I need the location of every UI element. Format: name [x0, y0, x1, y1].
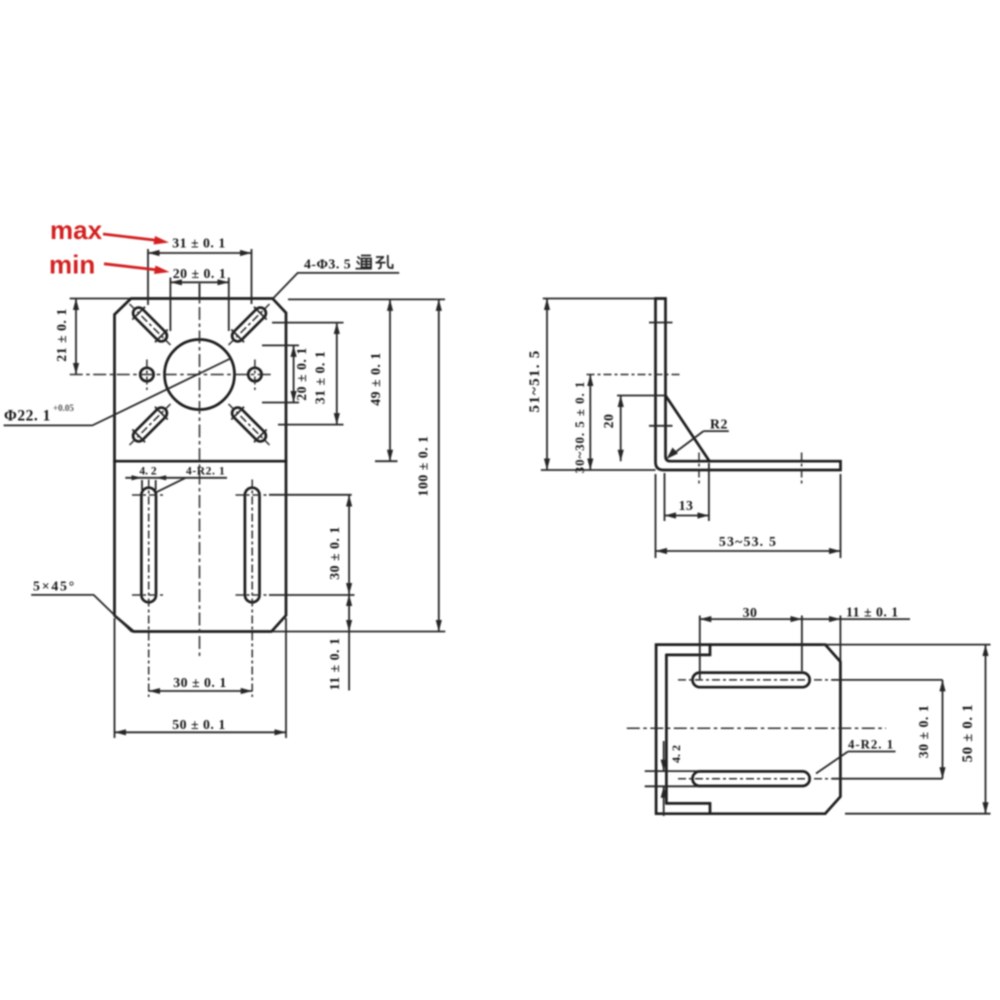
leg tick 2 [801, 453, 803, 485]
slot mark upper [649, 322, 673, 324]
dim 100 top ext [288, 298, 445, 300]
dim 30 ext right [801, 616, 803, 672]
svg-text:30~30. 5 ± 0. 1: 30~30. 5 ± 0. 1 [573, 381, 587, 474]
dim 20 line [620, 396, 622, 462]
dim 31 top line [148, 252, 252, 254]
slot upper centerline [678, 679, 832, 681]
lower slot right [245, 488, 260, 603]
dim 11 ext [839, 616, 841, 662]
dim 53 ext left [655, 474, 657, 558]
dim 21 line [75, 299, 77, 375]
leg tick 1 [698, 453, 700, 485]
dim 20 ext [617, 395, 666, 397]
slot upper-right [222, 298, 276, 352]
dim 30 ext left [699, 616, 701, 680]
label 5x45 leader [31, 595, 132, 632]
svg-text:20: 20 [601, 414, 616, 429]
side hole tick right [254, 360, 256, 391]
svg-text:31 ± 0. 1: 31 ± 0. 1 [172, 236, 225, 251]
dim 30 right line [942, 680, 944, 779]
right ext slot-inner top [262, 344, 299, 346]
main centerline [627, 727, 886, 729]
dim 50 line [985, 645, 987, 814]
svg-text:20 ± 0. 1: 20 ± 0. 1 [173, 266, 226, 281]
svg-text:4. 2: 4. 2 [669, 745, 683, 763]
center extension [199, 284, 201, 299]
right ext slot-inner bottom [262, 402, 299, 404]
slot bottom marks [132, 594, 166, 596]
dim 50 left ext [114, 618, 116, 738]
svg-text:Φ22. 1: Φ22. 1 [4, 408, 51, 425]
svg-text:30 ± 0. 1: 30 ± 0. 1 [916, 705, 931, 758]
svg-text:100 ± 0. 1: 100 ± 0. 1 [416, 436, 431, 497]
svg-text:30 ± 0. 1: 30 ± 0. 1 [327, 526, 342, 579]
svg-text:20 ± 0. 1: 20 ± 0. 1 [294, 347, 309, 400]
svg-text:11 ± 0. 1: 11 ± 0. 1 [327, 638, 342, 691]
dim 11 line [348, 595, 350, 632]
side hole left [140, 368, 153, 381]
dim 11 tail [348, 632, 350, 691]
dim 53 ext right [840, 474, 842, 558]
svg-text:30: 30 [743, 605, 758, 620]
dim 31 right line [336, 323, 338, 425]
right lower ext 595 solid [269, 594, 355, 596]
dim 30 line [700, 618, 802, 620]
svg-text:31 ± 0. 1: 31 ± 0. 1 [313, 351, 328, 404]
slot lower ext [832, 778, 943, 780]
right ext slot-outer bottom [278, 424, 344, 426]
svg-text:49 ± 0. 1: 49 ± 0. 1 [368, 352, 383, 405]
svg-text:4-R2. 1: 4-R2. 1 [848, 738, 894, 752]
svg-text:max: max [50, 215, 103, 245]
bend line [115, 460, 287, 463]
dim 13 line [665, 515, 709, 517]
svg-text:50 ± 0. 1: 50 ± 0. 1 [960, 704, 976, 763]
svg-text:50 ± 0. 1: 50 ± 0. 1 [172, 717, 225, 732]
gusset rib [666, 396, 710, 462]
slot mark lower [649, 425, 673, 427]
dim 50 ext bottom [845, 813, 991, 815]
hanzi kong [376, 255, 393, 268]
plate outline [656, 645, 840, 814]
dim 30.5 line [589, 375, 591, 471]
dim 53 line [656, 550, 841, 552]
L-profile outline [656, 299, 841, 471]
label R2 leader [671, 431, 704, 455]
dim 20 right line [293, 345, 295, 402]
lower slot left [141, 488, 156, 603]
red arrow min [104, 264, 158, 270]
dim 31 top: extension lines [147, 249, 149, 305]
label phi22.1 leader [4, 358, 232, 425]
svg-text:min: min [49, 250, 95, 280]
svg-text:30 ± 0. 1: 30 ± 0. 1 [173, 675, 226, 690]
dim 11 tail [840, 618, 910, 620]
svg-text:11 ± 0. 1: 11 ± 0. 1 [846, 605, 899, 620]
center height dash [587, 374, 681, 376]
dim 30 right line [348, 495, 350, 595]
red arrow max [103, 234, 158, 241]
slot lower centerline [678, 778, 832, 780]
slot lower [693, 771, 810, 786]
dim 13 ext right [708, 463, 710, 521]
bracket plate outline [115, 299, 287, 632]
dim 4.2 slot width line [125, 477, 227, 479]
right lower ext 495 solid [269, 494, 352, 496]
svg-text:4-R2. 1: 4-R2. 1 [186, 466, 225, 478]
dim 50 ext top [822, 644, 991, 646]
dim 4.2 ext bottom [645, 785, 700, 787]
dim 50 right ext [285, 618, 287, 738]
svg-text:4-Φ3. 5: 4-Φ3. 5 [304, 257, 351, 272]
vertical centerline [199, 284, 201, 658]
dim 11 line [802, 618, 841, 620]
dim 51 line [546, 299, 548, 471]
dim 4.2 arrows [132, 475, 143, 480]
label 4-R2.1 leader [156, 478, 185, 492]
label R2 underline [704, 430, 729, 432]
dim 100 line [438, 299, 440, 631]
dim 4.2 ext top [645, 770, 700, 772]
dim 100 bottom ext [273, 631, 445, 633]
svg-text:R2: R2 [710, 417, 728, 432]
flange notch bottom [666, 803, 710, 813]
dim 20 top line [170, 281, 228, 283]
slot lower-left [123, 398, 177, 452]
svg-text:51~51. 5: 51~51. 5 [527, 349, 543, 412]
dim 4.2 arrow top [663, 741, 665, 771]
svg-text:53~53. 5: 53~53. 5 [719, 534, 777, 549]
label 4-phi3.5 leader [272, 273, 399, 299]
side hole right [248, 368, 261, 381]
slot upper ext [832, 679, 943, 681]
right ext slot-outer top [272, 322, 344, 324]
label 4-R2.1 leader [816, 752, 848, 774]
side hole tick left [146, 360, 148, 391]
hanzi tong [356, 256, 372, 269]
svg-text:5×45°: 5×45° [33, 579, 76, 594]
slot upper [693, 673, 810, 688]
slot upper-left [123, 298, 177, 352]
svg-text:4. 2: 4. 2 [139, 466, 157, 478]
lower slot left centerline [148, 480, 150, 698]
svg-text:13: 13 [679, 498, 694, 513]
dim 51 baseline ext [541, 469, 656, 471]
slot top marks [132, 494, 166, 496]
dim 49 bottom ext [375, 460, 398, 462]
dim 4.2 ext ticks [141, 480, 143, 490]
dim 4.2 arrow bottom [663, 786, 665, 816]
svg-text:21 ± 0. 1: 21 ± 0. 1 [54, 308, 69, 361]
dim 13 ext left [664, 473, 666, 521]
dim 49 line [389, 299, 391, 461]
svg-text:+0.05: +0.05 [53, 403, 74, 413]
dim 51 top ext [543, 298, 656, 300]
dim 50 line [115, 731, 287, 733]
horizontal centerline [70, 374, 272, 376]
flange notch top [666, 645, 710, 655]
label 4-R2.1 underline [848, 751, 896, 753]
slot lower-right [222, 398, 276, 452]
dim 20 top: extension lines [169, 278, 171, 332]
flange inner edge [665, 655, 668, 804]
center hole circle D22.1 [165, 340, 235, 410]
dim 30 bottom line [149, 690, 253, 692]
dim 21 left: top extension [70, 298, 131, 300]
lower slot right centerline [251, 480, 253, 698]
